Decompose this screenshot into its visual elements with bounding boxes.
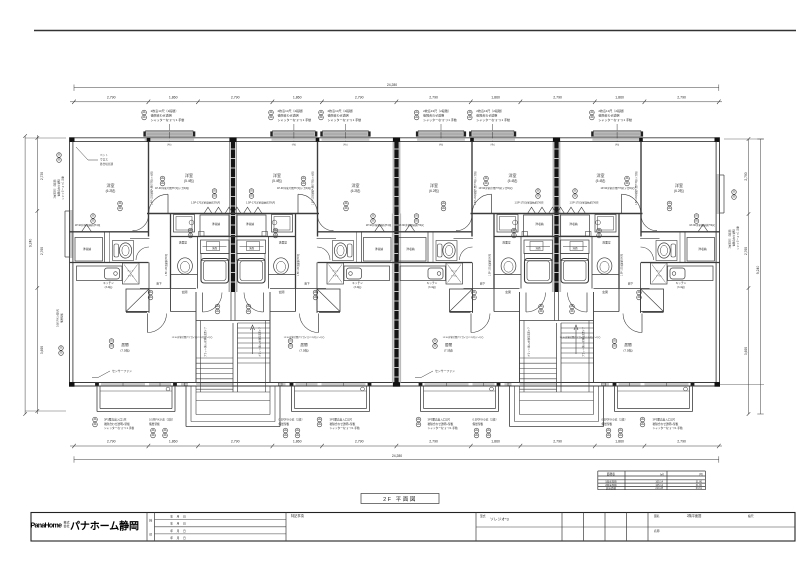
left window annotation xyxy=(57,153,62,158)
svg-text:(3.4帖): (3.4帖) xyxy=(354,285,362,289)
svg-text:洗面室: 洗面室 xyxy=(502,241,511,245)
svg-text:廊下: 廊下 xyxy=(304,281,310,285)
bay window 1 xyxy=(145,132,195,136)
svg-text:2枚窓3尺〔2段積〕: 2枚窓3尺〔2段積〕 xyxy=(728,228,732,249)
svg-text:(7.5帖): (7.5帖) xyxy=(299,347,308,352)
svg-text:縮尺: 縮尺 xyxy=(748,514,754,518)
unit 4 kitchen counter xyxy=(668,266,714,281)
svg-text:1,860: 1,860 xyxy=(169,95,178,99)
svg-text:シャッターォリ1 手動: シャッターォリ1 手動 xyxy=(736,226,740,250)
unit 4 closet K1 xyxy=(561,215,590,236)
unit 3 toilet fixture xyxy=(436,241,457,261)
svg-text:後隔合わせ透明: 後隔合わせ透明 xyxy=(598,113,619,118)
party wall 3 xyxy=(554,141,558,292)
svg-text:トイレ: トイレ xyxy=(451,274,458,277)
unit 2 toilet room xyxy=(361,232,363,263)
top segment dimension line xyxy=(70,101,722,103)
party wall 1 xyxy=(231,141,235,292)
left overall dimension 9,240 xyxy=(24,136,26,414)
svg-text:後隔合わせ透明: 後隔合わせ透明 xyxy=(328,113,349,118)
svg-text:洗面: 洗面 xyxy=(212,246,218,250)
svg-text:洗面室: 洗面室 xyxy=(179,241,188,245)
svg-text:PanaHome: PanaHome xyxy=(31,523,63,530)
unit 1 living room door arc xyxy=(148,314,167,333)
unit 4 washroom fixtures xyxy=(595,215,616,233)
svg-text:2,790: 2,790 xyxy=(231,439,240,443)
svg-text:ペット: ペット xyxy=(656,269,663,272)
bay window 2 xyxy=(272,132,317,136)
svg-text:型式: 型式 xyxy=(480,514,486,518)
svg-text:2枚窓13尺〔2段積〕: 2枚窓13尺〔2段積〕 xyxy=(328,108,356,113)
svg-text:1,860: 1,860 xyxy=(615,439,624,443)
svg-text:1,860: 1,860 xyxy=(491,439,500,443)
svg-text:洋収納: 洋収納 xyxy=(535,222,544,226)
unit 4 circled markers xyxy=(625,176,630,181)
unit 4 toilet fixture xyxy=(656,241,677,261)
svg-text:3,690: 3,690 xyxy=(40,346,44,354)
svg-text:ソレジオ*3: ソレジオ*3 xyxy=(490,516,509,521)
unit 1 hatch square xyxy=(126,289,149,312)
unit 1 hall door arc B xyxy=(136,247,149,260)
unit 2 pet toilet xyxy=(327,263,344,284)
unit 3 hall door arc A xyxy=(456,215,472,231)
svg-text:(7.5帖): (7.5帖) xyxy=(623,347,632,352)
svg-text:備層型板: 備層型板 xyxy=(60,313,64,323)
svg-text:居間: 居間 xyxy=(300,342,308,347)
svg-text:シャッターな'ォ'リ1 手動: シャッターな'ォ'リ1 手動 xyxy=(598,117,632,122)
unit 1 pet toilet xyxy=(123,263,140,284)
svg-text:後隔合わせ透明: 後隔合わせ透明 xyxy=(476,113,497,118)
unit 1 hall door arc A xyxy=(133,215,149,231)
unit 4 closet band wall (party side) xyxy=(557,213,643,215)
unit 2 hall walls xyxy=(316,263,318,314)
svg-text:居間: 居間 xyxy=(121,342,129,347)
svg-text:1,860: 1,860 xyxy=(293,95,302,99)
svg-text:1,860: 1,860 xyxy=(615,95,624,99)
svg-text:0.5尺FIX小窓〔2段〕: 0.5尺FIX小窓〔2段〕 xyxy=(473,417,499,421)
unit 4 pet toilet xyxy=(651,263,668,284)
svg-text:2F 平面図: 2F 平面図 xyxy=(383,496,417,503)
svg-text:キッチン: キッチン xyxy=(676,281,687,285)
svg-text:洋収納: 洋収納 xyxy=(246,222,255,226)
svg-text:2階平面図: 2階平面図 xyxy=(687,513,702,518)
unit 3 circled markers xyxy=(484,176,489,181)
svg-text:1.5P-170洋室収納折戸6尺: 1.5P-170洋室収納折戸6尺 xyxy=(246,201,276,205)
svg-text:玄関: 玄関 xyxy=(279,289,285,294)
area table xyxy=(598,470,706,472)
svg-text:2枚窓3尺〔2段積〕: 2枚窓3尺〔2段積〕 xyxy=(53,178,57,199)
stair core 1 walls xyxy=(195,292,197,383)
svg-text:後隔合わせ透明: 後隔合わせ透明 xyxy=(278,113,299,118)
unit 3 left closet/toilet row xyxy=(393,231,472,233)
title block date table xyxy=(285,513,287,542)
svg-text:1.5P-130洋室片閉戸7尺(ドガ尺): 1.5P-130洋室片閉戸7尺(ドガ尺) xyxy=(150,171,154,205)
svg-text:2,790: 2,790 xyxy=(429,439,438,443)
balcony 1 xyxy=(96,386,98,412)
unit 3 kitchen counter xyxy=(400,266,446,281)
svg-text:備層型板: 備層型板 xyxy=(279,422,290,426)
svg-text:(5.4帖): (5.4帖) xyxy=(596,178,606,183)
svg-text:後隔合わせ透明: 後隔合わせ透明 xyxy=(423,113,444,118)
svg-text:洗面: 洗面 xyxy=(249,246,255,250)
svg-text:(4b): (4b) xyxy=(167,144,171,147)
svg-text:1.5P-170洋室収納折戸6尺: 1.5P-170洋室収納折戸6尺 xyxy=(514,201,544,205)
unit 2 closet K2 xyxy=(364,238,392,262)
stair core 1 treads xyxy=(238,322,271,324)
svg-text:印: 印 xyxy=(149,532,152,537)
party wall 2 xyxy=(394,141,398,382)
unit 1 circled markers xyxy=(160,176,165,181)
unit 2 room divider wall xyxy=(317,141,319,236)
outer wall top xyxy=(70,137,720,139)
svg-text:0.5尺FIX小窓〔2段〕: 0.5尺FIX小窓〔2段〕 xyxy=(279,417,305,421)
unit 3 room divider wall xyxy=(471,141,473,236)
bottom wall window bands xyxy=(101,383,145,385)
svg-text:2,790: 2,790 xyxy=(677,439,686,443)
svg-text:洋室: 洋室 xyxy=(597,172,605,178)
svg-text:玄関: 玄関 xyxy=(505,289,511,294)
svg-text:1,860: 1,860 xyxy=(169,439,178,443)
svg-text:2枚窓13尺〔2段積〕: 2枚窓13尺〔2段積〕 xyxy=(278,108,306,113)
svg-text:3P3腰高出入口1尺: 3P3腰高出入口1尺 xyxy=(428,417,451,421)
unit 4 hall door arc A xyxy=(641,215,657,231)
svg-text:キッチン: キッチン xyxy=(103,281,114,285)
svg-text:ペット: ペット xyxy=(332,269,339,272)
svg-text:(3.4帖): (3.4帖) xyxy=(105,285,113,289)
svg-text:会社: 会社 xyxy=(64,523,70,528)
unit 2 kitchen counter xyxy=(344,266,390,281)
svg-text:後隔合わせ透明: 後隔合わせ透明 xyxy=(151,113,172,118)
svg-text:備層型板: 備層型板 xyxy=(602,422,613,426)
svg-text:(4b): (4b) xyxy=(490,144,494,147)
svg-text:2枚窓13尺〔2段積〕: 2枚窓13尺〔2段積〕 xyxy=(476,108,504,113)
stair core 2 entry doors xyxy=(526,293,546,313)
svg-text:シャッターな'ォ'リ1 手動: シャッターな'ォ'リ1 手動 xyxy=(278,117,312,122)
svg-text:シャッターな'ォ'リ1 手動: シャッターな'ォ'リ1 手動 xyxy=(428,426,458,430)
unit 3 pet toilet xyxy=(446,263,463,284)
unit 3 closet band wall (party side) xyxy=(471,213,557,215)
svg-text:24,280: 24,280 xyxy=(392,454,402,458)
unit 1 toilet fixture xyxy=(113,241,134,261)
svg-text:シャッターな'ォ'リ1 手動: シャッターな'ォ'リ1 手動 xyxy=(423,117,457,122)
svg-text:キッチン: キッチン xyxy=(427,281,438,285)
svg-text:1,860: 1,860 xyxy=(293,439,302,443)
unit 4 living room door arc xyxy=(623,314,642,333)
svg-text:玄関: 玄関 xyxy=(602,289,608,294)
svg-text:備層型板: 備層型板 xyxy=(473,422,484,426)
svg-text:(6.2帖): (6.2帖) xyxy=(106,188,116,193)
svg-text:捺: 捺 xyxy=(149,518,152,523)
svg-text:1P-90洋室収納折戸4尺: 1P-90洋室収納折戸4尺 xyxy=(689,223,715,227)
svg-text:年 月 日: 年 月 日 xyxy=(170,515,186,519)
svg-text:洋収納: 洋収納 xyxy=(406,247,415,251)
svg-text:(6.2帖): (6.2帖) xyxy=(429,188,439,193)
unit 2 washroom fixtures xyxy=(272,215,293,233)
svg-text:(4b): (4b) xyxy=(343,144,347,147)
unit 3 hatch square xyxy=(450,289,473,312)
unit 4 toilet room xyxy=(684,232,686,263)
svg-text:24,280: 24,280 xyxy=(387,83,397,87)
svg-text:洋収納: 洋収納 xyxy=(212,222,221,226)
svg-text:(3.4帖): (3.4帖) xyxy=(428,285,436,289)
svg-text:1P-90洋室片開戸7尺(ドガD尺): 1P-90洋室片開戸7尺(ドガD尺) xyxy=(277,186,311,190)
svg-text:トイレ: トイレ xyxy=(127,274,134,277)
unit 3 hall walls xyxy=(472,263,474,314)
svg-text:洗面室: 洗面室 xyxy=(602,241,611,245)
balcony annotation xyxy=(317,417,322,422)
svg-text:1.5P-130洋室片閉戸7尺(ドガ尺): 1.5P-130洋室片閉戸7尺(ドガ尺) xyxy=(473,171,477,205)
svg-text:(㎡): (㎡) xyxy=(660,472,664,476)
svg-text:トイレ: トイレ xyxy=(656,274,663,277)
unit 1 room divider wall xyxy=(148,141,150,236)
unit 1 hall walls xyxy=(148,263,150,314)
svg-text:1P-90洋室収納折戸4尺: 1P-90洋室収納折戸4尺 xyxy=(366,223,392,227)
svg-text:1P-90洋室収納折戸4尺: 1P-90洋室収納折戸4尺 xyxy=(398,223,424,227)
overall top dimension 24,280 xyxy=(74,87,719,89)
svg-text:特記事項: 特記事項 xyxy=(291,513,305,518)
svg-text:洋室: 洋室 xyxy=(509,172,517,178)
svg-text:(4b): (4b) xyxy=(439,144,443,147)
svg-text:居間: 居間 xyxy=(624,342,632,347)
unit 2 bath counter + tub xyxy=(237,240,266,254)
balcony annotation xyxy=(640,417,645,422)
unit 1 left closet/toilet row xyxy=(70,231,149,233)
stair core 1 up arrow xyxy=(252,328,254,354)
bay window 5 xyxy=(470,132,515,136)
svg-text:2,760: 2,760 xyxy=(744,247,748,255)
svg-text:2,790: 2,790 xyxy=(553,439,562,443)
svg-text:後隔合わせ透明: 後隔合わせ透明 xyxy=(732,229,736,246)
stair core 2 walls xyxy=(519,292,521,383)
title block seal cell xyxy=(146,513,148,542)
unit 3 divider door arc xyxy=(472,194,491,213)
svg-text:(5.4帖): (5.4帖) xyxy=(272,178,282,183)
unit 1 closet band wall (party side) xyxy=(147,213,233,215)
svg-text:後隔合わせ透明+型板: 後隔合わせ透明+型板 xyxy=(104,422,130,426)
outer wall corner posts xyxy=(69,137,75,142)
svg-text:1.5P-170洋室収納折戸6尺: 1.5P-170洋室収納折戸6尺 xyxy=(191,201,221,205)
svg-text:9,240: 9,240 xyxy=(756,266,760,275)
top wall divider posts xyxy=(147,138,151,142)
unit 3 bath counter + tub xyxy=(524,240,553,254)
svg-text:1.5P-170洋室収納折戸6尺: 1.5P-170洋室収納折戸6尺 xyxy=(569,201,599,205)
svg-text:2,790: 2,790 xyxy=(553,95,562,99)
svg-text:(6.2帖): (6.2帖) xyxy=(351,188,361,193)
svg-text:後隔合わせ透明: 後隔合わせ透明 xyxy=(57,179,61,196)
unit 4 divider door arc xyxy=(622,194,641,213)
svg-text:2,790: 2,790 xyxy=(429,95,438,99)
svg-text:廊下: 廊下 xyxy=(156,281,162,285)
outer wall right xyxy=(719,138,721,386)
right dimension line xyxy=(748,139,750,414)
stair core 2 up arrow xyxy=(575,328,577,354)
svg-text:1P-90洋室片開戸7尺(ドガD尺): 1P-90洋室片開戸7尺(ドガD尺) xyxy=(600,186,634,190)
unit 2 living room door arc xyxy=(300,314,319,333)
svg-text:(4b): (4b) xyxy=(292,144,296,147)
title block model cell xyxy=(475,513,477,542)
svg-text:(7.5帖): (7.5帖) xyxy=(120,347,129,352)
left segmented dimension line xyxy=(36,135,38,414)
unit 2 hall door arc A xyxy=(318,215,334,231)
svg-text:(5.4帖): (5.4帖) xyxy=(184,178,194,183)
svg-text:居間: 居間 xyxy=(445,342,453,347)
svg-text:シャッターな'ォ'リ1 手動: シャッターな'ォ'リ1 手動 xyxy=(328,117,362,122)
stair core 2 porch xyxy=(509,386,511,427)
svg-text:廊下: 廊下 xyxy=(480,281,486,285)
svg-text:0.5尺FIX小窓6尺: 0.5尺FIX小窓6尺 xyxy=(56,308,60,327)
svg-text:洋収納: 洋収納 xyxy=(83,247,92,251)
drawing title 2F plan xyxy=(361,494,439,504)
unit 4 room divider wall xyxy=(640,141,642,236)
unit 2 closet band wall (party side) xyxy=(233,213,319,215)
svg-text:1P-90洋室収納折戸4尺: 1P-90洋室収納折戸4尺 xyxy=(75,223,101,227)
svg-text:1P-90洋室片開戸7尺(ドガD尺): 1P-90洋室片開戸7尺(ドガD尺) xyxy=(478,186,512,190)
svg-text:ペット: ペット xyxy=(100,153,108,157)
svg-text:年 月 日: 年 月 日 xyxy=(170,529,186,533)
unit 1 kitchen counter xyxy=(77,266,123,281)
svg-text:2,760: 2,760 xyxy=(40,247,44,255)
svg-text:2,790: 2,790 xyxy=(744,172,748,180)
unit 4 bath counter + tub xyxy=(561,240,590,254)
svg-text:ウロス: ウロス xyxy=(100,157,108,161)
svg-text:洋室: 洋室 xyxy=(430,182,438,188)
unit 2 left closet/toilet row xyxy=(318,231,397,233)
balcony 3 xyxy=(420,386,422,412)
bottom wall junction posts xyxy=(95,382,99,386)
unit 4 hall walls xyxy=(640,263,642,314)
svg-text:3P3腰高出入口1尺: 3P3腰高出入口1尺 xyxy=(653,417,676,421)
svg-text:洗面室: 洗面室 xyxy=(279,241,288,245)
svg-text:2,790: 2,790 xyxy=(677,95,686,99)
svg-text:図名: 図名 xyxy=(654,514,660,518)
stair core 2 treads xyxy=(561,322,594,324)
svg-text:1.5P-130洋室片閉戸7尺(ドガ尺): 1.5P-130洋室片閉戸7尺(ドガ尺) xyxy=(310,171,314,205)
svg-text:玄関: 玄関 xyxy=(182,289,188,294)
svg-text:シャッターな'ォ'リ1 手動: シャッターな'ォ'リ1 手動 xyxy=(476,117,510,122)
svg-text:2枚窓13尺〔2段積〕: 2枚窓13尺〔2段積〕 xyxy=(423,108,451,113)
svg-text:1P-90洋室片開戸7尺(ドガD尺): 1P-90洋室片開戸7尺(ドガD尺) xyxy=(155,186,189,190)
svg-text:洗面: 洗面 xyxy=(572,246,578,250)
svg-text:3P3腰高出入口1尺: 3P3腰高出入口1尺 xyxy=(104,417,127,421)
svg-text:シャッターな'ォ'リ1 手動: シャッターな'ォ'リ1 手動 xyxy=(653,426,683,430)
svg-text:1,860: 1,860 xyxy=(491,95,500,99)
svg-text:トイレ: トイレ xyxy=(332,274,339,277)
unit 2 hall door arc B xyxy=(317,247,330,260)
svg-text:備層型板: 備層型板 xyxy=(149,422,160,426)
svg-text:各仕切共通: 各仕切共通 xyxy=(100,162,113,166)
unit 3 closet K2 xyxy=(399,238,427,262)
svg-text:センサーファン: センサーファン xyxy=(435,368,455,373)
svg-text:2枚窓13尺〔2段積〕: 2枚窓13尺〔2段積〕 xyxy=(598,108,626,113)
bay window 6 xyxy=(592,132,642,136)
svg-text:(坪): (坪) xyxy=(699,472,703,476)
svg-text:シャッターォリ1 手動: シャッターォリ1 手動 xyxy=(61,176,65,200)
right overall dimension 9,240 xyxy=(760,139,762,414)
unit 2 closet K1 xyxy=(237,215,266,236)
svg-text:シャッターな'ォ'リ1 手動: シャッターな'ォ'リ1 手動 xyxy=(104,426,134,430)
svg-text:3P3腰高出入口1尺: 3P3腰高出入口1尺 xyxy=(330,417,353,421)
svg-text:洋収納: 洋収納 xyxy=(698,247,707,251)
svg-text:ペット: ペット xyxy=(451,269,458,272)
title block frame xyxy=(31,513,795,542)
unit 2 toilet fixture xyxy=(333,241,354,261)
svg-text:後隔合わせ透明+型板: 後隔合わせ透明+型板 xyxy=(330,422,356,426)
svg-text:後隔合わせ透明+型板: 後隔合わせ透明+型板 xyxy=(653,422,679,426)
bay window 4 xyxy=(417,132,465,136)
svg-text:2,790: 2,790 xyxy=(107,95,116,99)
svg-text:(3.4帖): (3.4帖) xyxy=(677,285,685,289)
balcony annotation xyxy=(93,417,98,422)
svg-text:210.28: 210.28 xyxy=(655,487,663,490)
stair core 1 porch xyxy=(185,386,187,427)
unit 1 closet K2 xyxy=(75,238,103,262)
svg-text:洋収納: 洋収納 xyxy=(569,222,578,226)
unit 1 divider door arc xyxy=(149,194,168,213)
svg-text:2,790: 2,790 xyxy=(355,439,364,443)
unit 3 toilet room xyxy=(427,232,429,263)
svg-text:2,790: 2,790 xyxy=(107,439,116,443)
svg-text:廊下: 廊下 xyxy=(628,281,634,285)
svg-text:9,240: 9,240 xyxy=(29,239,33,248)
svg-text:名称: 名称 xyxy=(654,529,660,533)
unit 2 circled markers xyxy=(301,176,306,181)
unit 3 hall door arc B xyxy=(460,247,473,260)
svg-text:洋収納: 洋収納 xyxy=(375,247,384,251)
right wall window xyxy=(717,174,719,214)
unit 4 left closet/toilet row xyxy=(641,231,720,233)
svg-text:洗面: 洗面 xyxy=(535,246,541,250)
svg-text:(5.4帖): (5.4帖) xyxy=(508,178,518,183)
unit 2 divider door arc xyxy=(298,194,317,213)
svg-text:2,730: 2,730 xyxy=(40,172,44,180)
unit 2 hatch square xyxy=(317,289,340,312)
svg-text:3,690: 3,690 xyxy=(744,347,748,355)
unit 1 toilet room xyxy=(104,232,106,263)
svg-text:シャッターな'ォ'リ1 手動: シャッターな'ォ'リ1 手動 xyxy=(330,426,360,430)
svg-text:1.5P-130洋室片閉戸7尺(ドガ尺): 1.5P-130洋室片閉戸7尺(ドガ尺) xyxy=(634,171,638,205)
svg-text:63.61: 63.61 xyxy=(696,487,703,490)
svg-text:洋室: 洋室 xyxy=(107,182,115,188)
svg-text:洋室: 洋室 xyxy=(675,182,683,188)
svg-text:シャッターな'ォ'リ1 手動: シャッターな'ォ'リ1 手動 xyxy=(151,117,185,122)
svg-text:2,790: 2,790 xyxy=(355,95,364,99)
svg-text:2枚窓13尺〔2段積〕: 2枚窓13尺〔2段積〕 xyxy=(151,108,179,113)
svg-text:洋室: 洋室 xyxy=(185,172,193,178)
title block small grid xyxy=(561,513,563,542)
svg-text:2,790: 2,790 xyxy=(231,95,240,99)
balcony 4 xyxy=(614,386,616,412)
bottom segment dimension line xyxy=(70,445,722,447)
svg-text:年 月 日: 年 月 日 xyxy=(170,536,186,540)
svg-text:延床面積: 延床面積 xyxy=(606,486,617,490)
left wall window xyxy=(70,210,72,258)
sheet top rule xyxy=(34,30,796,32)
svg-text:面積表: 面積表 xyxy=(607,472,616,476)
svg-text:センサーファン: センサーファン xyxy=(112,368,132,373)
overall bottom dimension 24,280 xyxy=(74,459,719,461)
svg-text:0.5尺FIX小窓〔2段〕: 0.5尺FIX小窓〔2段〕 xyxy=(149,417,175,421)
unit 4 closet K2 xyxy=(687,238,715,262)
svg-text:(6.2帖): (6.2帖) xyxy=(674,188,684,193)
svg-text:0.5尺FIX小窓〔2段〕: 0.5尺FIX小窓〔2段〕 xyxy=(602,417,628,421)
outer wall bottom xyxy=(70,382,720,384)
unit 1 closet K1 xyxy=(200,215,229,236)
unit 4 hatch square xyxy=(641,289,664,312)
unit 1 bath counter + tub xyxy=(201,240,230,254)
unit 4 hall door arc B xyxy=(641,247,654,260)
svg-text:キッチン: キッチン xyxy=(352,281,363,285)
right window annotation xyxy=(732,190,737,195)
